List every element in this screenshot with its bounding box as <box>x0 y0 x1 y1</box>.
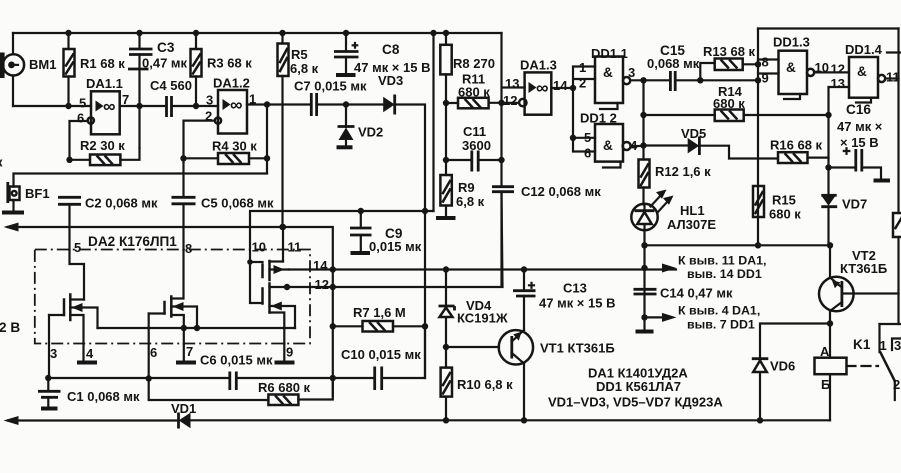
capacitor C7 <box>311 93 316 116</box>
chip border DA2 dash-dot box <box>35 250 310 344</box>
wire DD1.3 out to DD1.4 <box>814 71 849 73</box>
svg-text:6: 6 <box>77 111 84 126</box>
svg-text:DD1 2: DD1 2 <box>580 111 617 126</box>
resistor R15 <box>753 186 764 217</box>
svg-text:DD1.1: DD1.1 <box>591 46 628 61</box>
arrow to DA1 pin11 <box>662 264 677 273</box>
switch K1.1 <box>880 324 901 400</box>
svg-text:C12 0,068 мк: C12 0,068 мк <box>521 184 601 199</box>
svg-text:8: 8 <box>762 55 769 70</box>
resistor R8 <box>440 33 451 175</box>
capacitor C12 <box>492 187 514 286</box>
svg-text:R7 1,6 М: R7 1,6 М <box>353 305 406 320</box>
svg-text:VD7: VD7 <box>842 197 867 212</box>
capacitor C3 <box>128 33 153 148</box>
wire DA1.3 pin13 <box>502 33 525 187</box>
svg-text:13: 13 <box>831 76 845 91</box>
svg-text:К выв. 4 DA1,: К выв. 4 DA1, <box>678 304 760 318</box>
svg-text:4: 4 <box>86 346 94 361</box>
pin 9 lead with ground <box>283 344 285 362</box>
svg-text:&: & <box>857 64 867 79</box>
svg-text:2: 2 <box>893 377 900 392</box>
op-amp DA1.1 <box>88 91 120 134</box>
diode VD7 <box>821 195 837 245</box>
wire x644 column <box>642 80 644 159</box>
node C9 tap <box>358 208 364 214</box>
node pin11 top <box>280 224 286 230</box>
pin 5 lead <box>70 250 85 300</box>
svg-text:9: 9 <box>286 345 293 360</box>
svg-text:VD1: VD1 <box>171 401 196 416</box>
wire y378 line <box>48 377 229 379</box>
diode VD6 <box>752 359 769 421</box>
capacitor C16 polarized <box>825 148 890 180</box>
svg-text:C8: C8 <box>382 42 400 57</box>
resistor R5 <box>278 33 289 227</box>
svg-text:R6 680 к: R6 680 к <box>258 380 311 395</box>
capacitor C9 <box>350 211 372 253</box>
svg-text:∞: ∞ <box>536 78 548 98</box>
svg-text:680 к: 680 к <box>769 207 801 222</box>
node R14 right <box>825 112 831 118</box>
capacitor C1 <box>38 378 61 409</box>
wire DD1.4 output <box>885 77 898 79</box>
svg-text:HL1: HL1 <box>680 203 705 218</box>
node C13 top <box>521 266 527 272</box>
svg-text:C5 0,068 мк: C5 0,068 мк <box>201 196 274 211</box>
svg-text:R1 68 к: R1 68 к <box>80 56 125 71</box>
pin 4 lead with ground <box>82 344 84 362</box>
microphone BM1 <box>0 33 24 106</box>
capacitor C11 <box>446 151 502 172</box>
capacitor C8 polarized <box>334 33 359 75</box>
svg-text:11: 11 <box>288 240 302 255</box>
svg-text:А: А <box>820 344 830 359</box>
pin 11 lead <box>282 227 284 262</box>
transistor M2 (DA2 middle) <box>149 297 197 344</box>
node R2 left <box>66 157 72 163</box>
svg-text:0,47 мк: 0,47 мк <box>142 56 188 71</box>
svg-text:R12 1,6 к: R12 1,6 к <box>655 164 711 179</box>
node R11 left <box>443 100 449 106</box>
svg-text:47 мк ×: 47 мк × <box>837 119 883 134</box>
diode VD2 <box>337 105 355 148</box>
relay coil K1 <box>815 324 847 421</box>
node VD6 bottom <box>757 417 763 423</box>
svg-text:C4 560: C4 560 <box>150 78 192 93</box>
node output pin7 <box>136 103 142 109</box>
resistor R9 <box>436 175 456 218</box>
resistor R13 <box>700 59 758 81</box>
svg-text:3: 3 <box>50 346 57 361</box>
node VT2 collector <box>827 320 833 326</box>
svg-text:К выв. 11 DA1,: К выв. 11 DA1, <box>678 254 766 268</box>
svg-text:2 В: 2 В <box>0 320 20 335</box>
svg-text:выв. 7 DD1: выв. 7 DD1 <box>687 318 755 332</box>
capacitor C4 <box>167 96 172 117</box>
svg-text:6,8 к: 6,8 к <box>290 61 319 76</box>
svg-text:R5: R5 <box>291 47 308 62</box>
node R7 left <box>330 323 336 329</box>
resistor R3 <box>191 33 202 106</box>
node R5 top <box>279 30 285 36</box>
svg-text:DD1.4: DD1.4 <box>845 42 883 57</box>
wire collector to VD6 <box>760 324 830 358</box>
svg-text:&: & <box>786 60 796 75</box>
node R13 right <box>755 61 761 67</box>
svg-text:R16 68 к: R16 68 к <box>770 138 823 153</box>
node x644 y317 <box>641 314 647 320</box>
svg-text:C13: C13 <box>563 281 587 296</box>
svg-text:7: 7 <box>186 344 193 359</box>
node R3 top <box>193 30 199 36</box>
node M4 output <box>284 284 290 290</box>
op-amp DA1.2 <box>215 90 247 134</box>
transistor VT2 <box>819 245 854 323</box>
node C1 top <box>45 375 51 381</box>
node R1 top <box>65 30 71 36</box>
wire left arrow line y227 <box>8 227 333 396</box>
svg-text:6: 6 <box>150 345 157 360</box>
node R7 right <box>422 323 428 329</box>
svg-text:C7 0,015 мк: C7 0,015 мк <box>294 79 367 94</box>
svg-text:R4 30 к: R4 30 к <box>212 139 257 154</box>
relay dashed link <box>847 365 879 367</box>
svg-text:R2 30 к: R2 30 к <box>80 138 125 153</box>
svg-text:3: 3 <box>894 338 901 353</box>
svg-text:DA1.1: DA1.1 <box>86 76 123 91</box>
svg-text:VT1 КТ361Б: VT1 КТ361Б <box>540 341 615 356</box>
svg-text:VD1–VD3, VD5–VD7 КД923А: VD1–VD3, VD5–VD7 КД923А <box>548 395 723 410</box>
capacitor C14 <box>634 289 657 331</box>
svg-text:R8 270: R8 270 <box>453 56 495 71</box>
wire DD1.4 pin13 <box>829 87 850 196</box>
capacitor C13 polarized <box>513 270 536 331</box>
wire BF1 line <box>14 174 268 187</box>
node R10 bottom <box>443 417 449 423</box>
svg-text:DA1.3: DA1.3 <box>520 58 557 73</box>
svg-text:DD1 К561ЛА7: DD1 К561ЛА7 <box>596 379 681 394</box>
node C8 top <box>343 30 349 36</box>
gate DD1.1 <box>595 57 630 110</box>
svg-text:КС191Ж: КС191Ж <box>457 311 508 326</box>
svg-text:680 к: 680 к <box>458 85 490 100</box>
svg-text:3: 3 <box>628 65 635 80</box>
capacitor C6 <box>230 372 237 391</box>
wire DD1.2 inputs <box>573 138 595 152</box>
svg-text:R15: R15 <box>772 193 796 208</box>
output bus inside DA2 <box>98 327 296 329</box>
svg-text:VD3: VD3 <box>378 73 403 88</box>
svg-text:выв. 14 DD1: выв. 14 DD1 <box>687 267 762 281</box>
resistor edge half <box>893 29 901 325</box>
pin 6 lead <box>148 314 150 379</box>
svg-text:КТ361Б: КТ361Б <box>840 261 887 276</box>
svg-text:12: 12 <box>315 277 329 292</box>
resistor R7 <box>333 321 425 332</box>
gate DD1.3 <box>779 51 815 99</box>
pin 3 lead <box>48 315 50 378</box>
svg-text:× 15 В: × 15 В <box>840 135 879 150</box>
speaker BF1 <box>2 182 24 213</box>
wire VT2 base to right <box>842 292 899 294</box>
svg-text:12: 12 <box>831 62 845 77</box>
svg-text:5: 5 <box>74 240 81 255</box>
svg-text:АЛ307Е: АЛ307Е <box>667 217 716 232</box>
node rail aux <box>430 30 436 36</box>
node pin5 junction <box>65 103 71 109</box>
node rail14 x333 <box>330 266 336 272</box>
svg-text:47 мк × 15 В: 47 мк × 15 В <box>539 296 615 311</box>
svg-text:2: 2 <box>579 76 586 91</box>
capacitor C10 <box>375 367 382 391</box>
node R5 bottom <box>279 224 285 230</box>
transistor M3 (DA2 right upper) <box>247 259 289 280</box>
wire y245 rail <box>645 244 831 246</box>
node rail14 VD4 tap <box>443 266 449 272</box>
svg-text:R10 6,8 к: R10 6,8 к <box>457 377 513 392</box>
node R8 top <box>443 30 449 36</box>
wire stub right edge top <box>887 51 901 53</box>
resistor R12 <box>639 160 650 205</box>
node C11 right <box>498 157 504 163</box>
node VT1 base junction <box>443 344 449 350</box>
node VT1 collector bottom <box>521 417 527 423</box>
resistor R10 <box>441 347 452 420</box>
wire DA1.2 output node <box>247 103 310 105</box>
wire right stem x758 <box>757 29 759 245</box>
pin 7 lead with ground <box>183 344 185 362</box>
node R14 left <box>640 112 646 118</box>
svg-text:C14 0,47 мк: C14 0,47 мк <box>660 286 733 301</box>
svg-text:9: 9 <box>762 71 769 86</box>
wire DD1.1 output y80 <box>630 79 670 81</box>
svg-text:6: 6 <box>584 146 591 161</box>
diode VD1 <box>179 413 831 429</box>
svg-text:3600: 3600 <box>462 138 491 153</box>
arrow to DA1 pin4 <box>645 316 663 318</box>
svg-text:BM1: BM1 <box>29 57 56 72</box>
svg-text:13: 13 <box>505 76 519 91</box>
svg-text:VD6: VD6 <box>770 359 795 374</box>
svg-text:0,068 мк: 0,068 мк <box>647 56 700 71</box>
svg-text:K1: K1 <box>853 337 871 352</box>
svg-text:C3: C3 <box>157 40 175 55</box>
gate DD1.2 <box>595 124 631 168</box>
wire DA1.3 output to node <box>551 88 573 138</box>
svg-text:VD2: VD2 <box>358 125 383 140</box>
pin 8 lead <box>171 250 183 299</box>
wire top-right frame <box>758 27 899 29</box>
wire DA1.1 output <box>120 105 165 107</box>
wire rail 12 y287 <box>287 192 503 287</box>
resistor R4 <box>184 153 268 164</box>
node rail12 x333 <box>330 284 336 290</box>
node R4 right <box>264 155 270 161</box>
svg-text:680 к: 680 к <box>713 96 745 111</box>
svg-text:C2 0,068 мк: C2 0,068 мк <box>85 196 158 211</box>
transistor VT1 <box>499 330 533 420</box>
wire rail 14 y269 <box>289 268 676 270</box>
wire mic to DA1.1 pin5 <box>13 105 91 107</box>
svg-text:10: 10 <box>252 240 266 255</box>
node VD2 tap <box>343 101 349 107</box>
svg-text:BF1: BF1 <box>25 186 50 201</box>
svg-text:C6 0,015 мк: C6 0,015 мк <box>200 353 273 368</box>
svg-text:C10 0,015 мк: C10 0,015 мк <box>341 347 421 362</box>
led HL1 <box>631 190 673 332</box>
gate DD1.4 <box>849 57 885 103</box>
wire DD1.3 inputs <box>758 60 779 74</box>
svg-text:DA2 К176ЛП1: DA2 К176ЛП1 <box>88 234 177 249</box>
svg-text:5: 5 <box>79 96 86 111</box>
svg-text:R3 68 к: R3 68 к <box>207 56 252 71</box>
svg-text:DD1.3: DD1.3 <box>773 35 810 50</box>
capacitor C2 <box>58 197 81 250</box>
node x644 y268 <box>641 265 647 271</box>
svg-text:R13 68 к: R13 68 к <box>703 44 756 59</box>
node pin6 bottom <box>146 375 152 381</box>
svg-text:C16: C16 <box>846 102 871 117</box>
wire DA1.1 pin6 feedback <box>70 121 88 160</box>
op-amp DA1.3 <box>519 72 551 114</box>
svg-text:C1 0,068 мк: C1 0,068 мк <box>67 389 140 404</box>
svg-text:R9: R9 <box>458 180 475 195</box>
node VD3 column crossing <box>422 208 428 214</box>
svg-text:14: 14 <box>313 258 328 273</box>
node C3 top <box>136 30 142 36</box>
capacitor C5 <box>172 158 196 250</box>
svg-text:&: & <box>603 65 613 80</box>
node R4 left <box>180 155 186 161</box>
svg-text:Б: Б <box>821 377 830 392</box>
wire DD1.1 inputs <box>573 67 595 89</box>
node C6-C10 mid <box>330 375 336 381</box>
svg-text:0,015 мк: 0,015 мк <box>369 239 422 254</box>
diode VD5 <box>644 137 779 159</box>
svg-text:VD5: VD5 <box>681 126 706 141</box>
resistor R1 <box>64 33 75 106</box>
node C11 left <box>443 157 449 163</box>
svg-text:∞: ∞ <box>103 96 115 116</box>
svg-text:7: 7 <box>122 92 129 107</box>
node R3 bottom <box>193 103 199 109</box>
svg-text:DA1.2: DA1.2 <box>213 76 250 91</box>
resistor R14 <box>644 110 829 122</box>
resistor R16 <box>778 152 829 163</box>
transistor M4 (DA2 right lower) <box>250 262 295 344</box>
node C15 right to stem <box>755 77 761 83</box>
transistor M1 (DA2 left cell) <box>49 295 98 344</box>
wire pin10 line y211 <box>250 211 434 262</box>
resistor R6 <box>149 378 333 405</box>
svg-text:3: 3 <box>206 93 213 108</box>
svg-text:8: 8 <box>185 241 192 256</box>
svg-text:&: & <box>603 138 613 153</box>
wire bottom rail with arrow <box>8 419 178 421</box>
resistor R11 <box>446 98 519 109</box>
wire DA1.2 pin2 feedback <box>184 121 215 159</box>
resistor R2 <box>70 148 140 165</box>
svg-text:1: 1 <box>880 338 887 353</box>
diode VD3 <box>383 95 425 379</box>
node VD7 bottom <box>827 242 833 248</box>
wire DD1.2 output <box>631 145 644 147</box>
node x644 y245 <box>641 242 647 248</box>
diode VD4 zener <box>439 270 455 348</box>
capacitor C15 <box>670 71 675 91</box>
svg-text:12: 12 <box>503 93 517 108</box>
svg-text:C11: C11 <box>463 124 486 139</box>
svg-text:14: 14 <box>553 78 568 93</box>
wire VT1 base <box>446 346 499 348</box>
wire top supply rail <box>13 32 502 34</box>
wire aux vertical from rail <box>432 33 434 211</box>
svg-text:∞: ∞ <box>230 95 242 115</box>
svg-text:6,8 к: 6,8 к <box>456 194 485 209</box>
